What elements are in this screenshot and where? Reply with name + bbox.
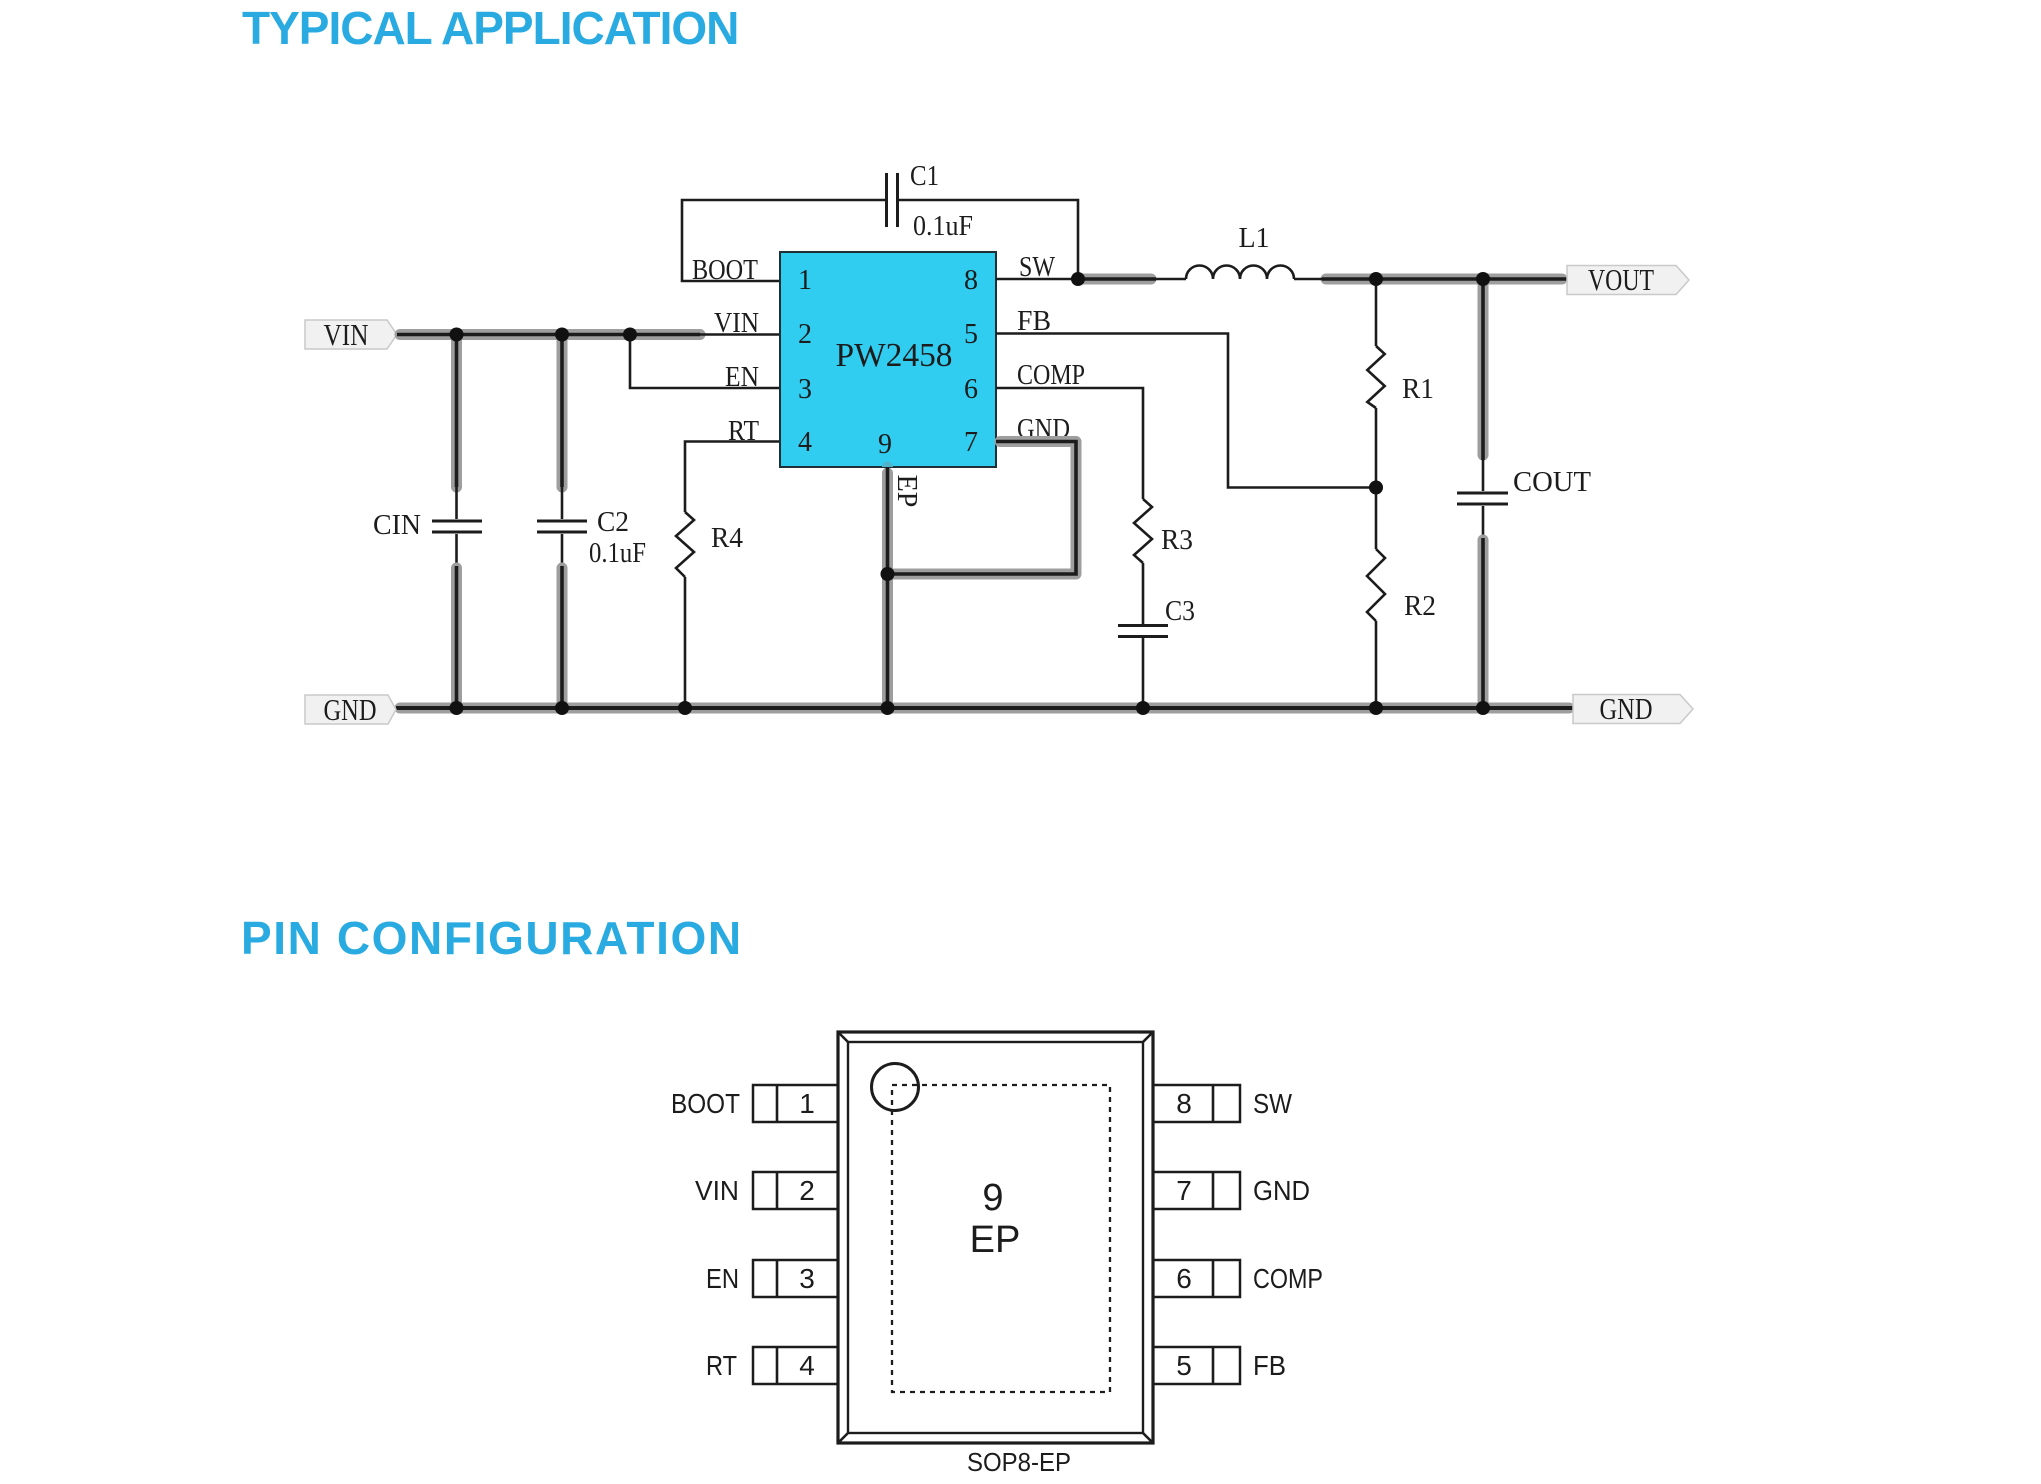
svg-text:GND: GND bbox=[1253, 1175, 1310, 1206]
svg-text:GND: GND bbox=[324, 692, 377, 727]
pin 5 box bbox=[1153, 1347, 1240, 1384]
capacitor CIN bbox=[373, 510, 482, 541]
svg-text:8: 8 bbox=[964, 265, 978, 296]
pin 2 box bbox=[753, 1172, 838, 1209]
svg-text:EP: EP bbox=[891, 475, 922, 508]
svg-text:6: 6 bbox=[1176, 1263, 1192, 1294]
junction node GND-C2 bbox=[555, 701, 569, 715]
svg-text:1: 1 bbox=[798, 265, 812, 296]
junction node GND-R2 bbox=[1369, 701, 1383, 715]
wire R4 to GND bbox=[684, 577, 687, 708]
wire EN bbox=[630, 335, 780, 389]
svg-text:4: 4 bbox=[798, 427, 812, 458]
svg-text:COUT: COUT bbox=[1513, 467, 1591, 498]
junction node VOUT-COUT bbox=[1476, 272, 1490, 286]
wire R3 to C3 bbox=[1142, 563, 1145, 624]
capacitor C1 bbox=[887, 161, 974, 242]
resistor R4 bbox=[676, 512, 743, 577]
wire R1 lower lead bbox=[1375, 408, 1378, 488]
svg-text:9: 9 bbox=[982, 1177, 1003, 1219]
pin 1 box bbox=[753, 1085, 838, 1122]
pin 4 box bbox=[753, 1347, 838, 1384]
svg-text:R4: R4 bbox=[711, 523, 743, 554]
net flag GND right bbox=[1573, 691, 1693, 726]
svg-text:8: 8 bbox=[1176, 1088, 1192, 1119]
svg-text:VIN: VIN bbox=[714, 308, 759, 339]
svg-text:1: 1 bbox=[799, 1088, 815, 1119]
wire FB bbox=[996, 334, 1376, 488]
wire R2 to GND bbox=[1375, 621, 1378, 708]
svg-text:EP: EP bbox=[970, 1219, 1021, 1261]
svg-text:SW: SW bbox=[1253, 1088, 1292, 1119]
svg-text:3: 3 bbox=[799, 1263, 815, 1294]
junction node FB-R1-R2 bbox=[1369, 481, 1383, 495]
svg-text:RT: RT bbox=[706, 1350, 737, 1381]
svg-text:C1: C1 bbox=[910, 161, 939, 192]
svg-text:VIN: VIN bbox=[695, 1175, 739, 1206]
exposed pad EP dashed outline bbox=[892, 1085, 1110, 1392]
capacitor C3 bbox=[1118, 596, 1195, 637]
wire VIN bus bbox=[397, 329, 780, 340]
wire SW bbox=[996, 274, 1186, 285]
wire R2 upper lead bbox=[1375, 488, 1378, 550]
wire CIN upper lead bbox=[451, 335, 462, 520]
pin 7 box bbox=[1153, 1172, 1240, 1209]
pin 1 marker circle bbox=[872, 1064, 919, 1111]
svg-text:RT: RT bbox=[728, 416, 759, 447]
svg-text:PW2458: PW2458 bbox=[836, 337, 953, 374]
svg-text:6: 6 bbox=[964, 374, 978, 405]
wire C2 upper lead bbox=[557, 335, 568, 520]
svg-text:2: 2 bbox=[798, 319, 812, 350]
junction node VIN-EN bbox=[623, 328, 637, 342]
svg-text:R2: R2 bbox=[1404, 591, 1436, 622]
wire BOOT loop to C1 bbox=[682, 200, 886, 281]
wire C3 to GND bbox=[1142, 638, 1145, 708]
wire C1 to SW bbox=[898, 200, 1079, 279]
wire CIN lower lead bbox=[455, 534, 458, 708]
svg-text:BOOT: BOOT bbox=[671, 1088, 740, 1119]
svg-text:PIN CONFIGURATION: PIN CONFIGURATION bbox=[241, 912, 743, 964]
package corner bevels bbox=[838, 1032, 1153, 1443]
svg-text:COMP: COMP bbox=[1017, 360, 1085, 391]
wire L1 to VOUT bbox=[1294, 274, 1567, 285]
svg-text:R1: R1 bbox=[1402, 374, 1434, 405]
svg-text:9: 9 bbox=[878, 429, 892, 460]
wire COUT lower lead bbox=[1482, 506, 1485, 708]
svg-text:2: 2 bbox=[799, 1175, 815, 1206]
svg-text:7: 7 bbox=[964, 427, 978, 458]
net flag VIN bbox=[305, 317, 397, 352]
capacitor C2 bbox=[537, 507, 646, 569]
svg-text:FB: FB bbox=[1253, 1350, 1286, 1381]
svg-text:4: 4 bbox=[799, 1350, 815, 1381]
svg-text:VOUT: VOUT bbox=[1588, 262, 1654, 297]
svg-text:5: 5 bbox=[964, 319, 978, 350]
wire GND pin7 to EP bbox=[888, 442, 1077, 575]
svg-text:VIN: VIN bbox=[324, 317, 369, 352]
svg-text:COMP: COMP bbox=[1253, 1263, 1323, 1294]
wire RT bbox=[685, 442, 780, 513]
svg-text:CIN: CIN bbox=[373, 510, 421, 541]
junction node GND-EP bbox=[881, 701, 895, 715]
resistor R3 bbox=[1134, 499, 1193, 563]
junction node GND-COUT bbox=[1476, 701, 1490, 715]
junction node SW-C1 bbox=[1071, 272, 1085, 286]
junction node GND-C3 bbox=[1136, 701, 1150, 715]
IC U1 PW2458 bbox=[780, 252, 996, 467]
inductor L1 bbox=[1186, 223, 1294, 279]
wire COUT upper lead bbox=[1478, 279, 1489, 491]
junction node VIN-C2 bbox=[555, 328, 569, 342]
capacitor COUT bbox=[1457, 467, 1591, 504]
svg-text:0.1uF: 0.1uF bbox=[589, 538, 646, 569]
GND bus wire bbox=[396, 703, 1573, 714]
net flag GND left bbox=[305, 692, 396, 727]
svg-text:EN: EN bbox=[725, 362, 759, 393]
svg-text:R3: R3 bbox=[1161, 525, 1193, 556]
wire R1 upper lead bbox=[1375, 279, 1378, 346]
svg-text:0.1uF: 0.1uF bbox=[913, 211, 973, 242]
svg-text:BOOT: BOOT bbox=[692, 255, 758, 286]
svg-text:SOP8-EP: SOP8-EP bbox=[967, 1447, 1071, 1477]
wire EP to GND bbox=[882, 467, 893, 708]
resistor R2 bbox=[1367, 549, 1436, 622]
svg-text:5: 5 bbox=[1176, 1350, 1192, 1381]
package body inner outline bbox=[848, 1042, 1143, 1433]
pin 3 box bbox=[753, 1260, 838, 1297]
svg-text:TYPICAL APPLICATION: TYPICAL APPLICATION bbox=[242, 2, 738, 54]
wire C2 lower lead bbox=[561, 534, 564, 708]
package body SOP8-EP outer bbox=[838, 1032, 1153, 1443]
svg-text:L1: L1 bbox=[1238, 223, 1269, 254]
svg-text:C2: C2 bbox=[597, 507, 629, 538]
wire COMP bbox=[996, 388, 1143, 499]
junction node GND-R4 bbox=[678, 701, 692, 715]
junction node GND-CIN bbox=[450, 701, 464, 715]
junction node VOUT-R1 bbox=[1369, 272, 1383, 286]
junction node EP-GND7 bbox=[881, 567, 895, 581]
svg-text:C3: C3 bbox=[1165, 596, 1195, 627]
svg-text:EN: EN bbox=[706, 1263, 739, 1294]
pin 6 box bbox=[1153, 1260, 1240, 1297]
svg-text:GND: GND bbox=[1600, 691, 1653, 726]
junction node VIN-CIN bbox=[450, 328, 464, 342]
resistor R1 bbox=[1367, 346, 1434, 408]
svg-text:3: 3 bbox=[798, 374, 812, 405]
net flag VOUT bbox=[1567, 262, 1689, 297]
svg-text:7: 7 bbox=[1176, 1175, 1192, 1206]
pin 8 box bbox=[1153, 1085, 1240, 1122]
